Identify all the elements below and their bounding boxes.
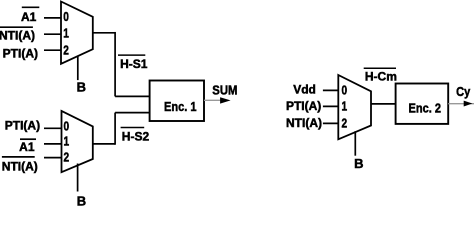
svg-text:H-Cm: H-Cm	[365, 69, 397, 83]
svg-text:NTI(A): NTI(A)	[0, 29, 35, 43]
svg-text:0: 0	[64, 119, 70, 133]
svg-text:1: 1	[63, 26, 69, 40]
svg-text:B: B	[354, 156, 363, 171]
svg-text:Vdd: Vdd	[293, 83, 316, 97]
svg-text:0: 0	[342, 83, 348, 97]
svg-text:B: B	[77, 79, 86, 94]
svg-text:Cy: Cy	[456, 84, 470, 99]
svg-text:H-S2: H-S2	[122, 129, 150, 143]
svg-text:PTI(A): PTI(A)	[3, 47, 38, 61]
svg-text:0: 0	[63, 10, 69, 24]
svg-text:2: 2	[63, 43, 69, 57]
svg-text:NTI(A): NTI(A)	[2, 159, 38, 173]
svg-text:1: 1	[342, 100, 348, 114]
svg-text:Enc. 2: Enc. 2	[409, 101, 442, 116]
svg-text:PTI(A): PTI(A)	[286, 99, 321, 113]
svg-text:2: 2	[64, 150, 70, 164]
svg-text:NTI(A): NTI(A)	[286, 116, 322, 130]
svg-text:PTI(A): PTI(A)	[5, 119, 40, 133]
svg-text:1: 1	[64, 134, 70, 148]
svg-text:A1: A1	[21, 10, 37, 24]
svg-text:2: 2	[342, 116, 348, 130]
svg-text:A1: A1	[19, 140, 35, 154]
svg-text:Enc. 1: Enc. 1	[164, 99, 197, 114]
svg-text:B: B	[77, 194, 86, 209]
svg-text:H-S1: H-S1	[120, 57, 148, 71]
svg-text:SUM: SUM	[212, 83, 237, 98]
